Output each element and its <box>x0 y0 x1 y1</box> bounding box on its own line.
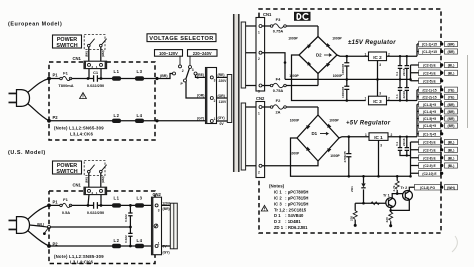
wire bottom rail European <box>49 120 157 122</box>
transformer primary winding (European) <box>227 75 231 123</box>
svg-text:(C1-6)+5: (C1-6)+5 <box>423 124 436 128</box>
regulator IC3 <box>365 92 391 105</box>
svg-text:L1: L1 <box>114 196 120 201</box>
svg-text:F1: F1 <box>63 70 68 75</box>
svg-text:L1: L1 <box>114 69 120 74</box>
svg-text:3: 3 <box>379 63 381 67</box>
svg-text:F1: F1 <box>63 197 68 202</box>
terminal row C2-3 E <box>419 62 458 68</box>
wire -15 output bus <box>387 90 442 101</box>
svg-text:IC 2: IC 2 <box>373 55 382 60</box>
terminal row C2-5 E <box>419 78 444 84</box>
svg-text:(C1-7)+5: (C1-7)+5 <box>423 132 436 136</box>
svg-text:(C2-3) E: (C2-3) E <box>423 64 436 68</box>
svg-text:2: 2 <box>182 69 184 73</box>
label 100-120V <box>155 50 183 57</box>
inductor L2 <box>112 119 121 123</box>
resistor 220 (emitter Tr1) <box>385 208 393 228</box>
svg-text:0.1: 0.1 <box>395 94 399 99</box>
svg-text:220: 220 <box>349 216 353 221</box>
inductor L3 (US) <box>135 203 144 207</box>
fuse F2 2A <box>262 98 318 115</box>
terminal row C1-1 +15 <box>419 41 458 47</box>
svg-text:(BR): (BR) <box>163 207 170 211</box>
connector CN1 (DC) <box>256 12 272 94</box>
regulator IC1 <box>365 133 393 148</box>
node P1 (US) <box>47 204 51 208</box>
capacitor 1000/35 (+rail) <box>341 55 349 80</box>
svg-text:(C2-10) E: (C2-10) E <box>422 172 437 176</box>
transformer primary winding (US) <box>170 203 177 249</box>
terminal row C2-8 E <box>419 155 458 161</box>
svg-text:(C1-8) PO: (C1-8) PO <box>420 186 435 190</box>
svg-text:(BL): (BL) <box>37 222 45 226</box>
svg-text:(BL): (BL) <box>448 141 455 145</box>
svg-text:(BL): (BL) <box>448 164 455 168</box>
svg-text:1000P: 1000P <box>290 119 300 123</box>
svg-text:2A: 2A <box>276 110 281 115</box>
svg-text:0.022/250: 0.022/250 <box>87 210 104 215</box>
node BR junction <box>155 77 158 80</box>
wire F3 to bridge <box>317 26 319 37</box>
node junction CN1 pin2 leg <box>87 77 90 80</box>
svg-text:P1: P1 <box>53 73 59 78</box>
svg-text:(BL): (BL) <box>448 64 455 68</box>
svg-text:(RE): (RE) <box>197 73 204 77</box>
svg-text:(BL): (BL) <box>448 71 455 75</box>
inductor L1 (US) <box>112 203 121 207</box>
svg-text:1000P: 1000P <box>330 154 340 158</box>
svg-text:Tr 1: Tr 1 <box>383 194 390 198</box>
switch S1 (European, dashed outline) <box>84 35 106 50</box>
svg-text:F4: F4 <box>276 77 281 82</box>
svg-text:(WH): (WH) <box>101 50 105 57</box>
wire bottom rail to xfmr pin1 <box>157 120 206 122</box>
svg-text:CN2: CN2 <box>256 96 265 101</box>
svg-text:1000P: 1000P <box>290 152 300 156</box>
capacitor 0.1 (IC2 out) <box>395 55 402 81</box>
node P2 <box>47 119 51 123</box>
svg-text:IC 3: IC 3 <box>373 99 382 104</box>
wire E (ground) line <box>285 78 411 80</box>
svg-text:(YE): (YE) <box>448 88 455 92</box>
svg-text:1: 1 <box>158 241 160 245</box>
svg-text:22/16: 22/16 <box>402 68 406 76</box>
wire E bus top group <box>411 65 442 81</box>
svg-text:3: 3 <box>379 92 381 96</box>
svg-text:Tr 2: Tr 2 <box>401 186 408 190</box>
svg-text:1000/35: 1000/35 <box>341 64 345 75</box>
svg-text:(BR): (BR) <box>448 103 455 107</box>
svg-text:2: 2 <box>258 57 260 61</box>
capacitor 4700/35 <box>343 135 351 177</box>
wire taps to primary winding <box>217 77 228 121</box>
DC section dashed enclosure <box>259 9 441 233</box>
wire D1 minus to ground rail <box>291 138 411 176</box>
node cap midpoint <box>129 226 132 229</box>
inductor L4 (US) <box>135 244 144 248</box>
svg-text:D 2 : 1D4B1: D 2 : 1D4B1 <box>274 219 301 224</box>
svg-text:(C1-4)+5: (C1-4)+5 <box>423 110 436 114</box>
capacitor 1000/35 (-rail) <box>341 78 349 102</box>
wire D2 plus to IC2 <box>337 55 369 56</box>
terminal row C1-8 PO <box>415 184 458 190</box>
node mid coil junction top <box>129 204 132 207</box>
wire +15 output bus <box>387 44 442 56</box>
capacitor 22/16 (IC1 out) <box>402 136 409 157</box>
node junction CN1 legs (US) <box>87 204 90 207</box>
inductor L3 <box>135 76 144 80</box>
scan artifact right edge <box>467 55 469 128</box>
capacitor 0.022/250 (US) <box>87 202 104 215</box>
warning triangle (notes) <box>261 205 267 211</box>
svg-text:(GY): (GY) <box>197 116 204 120</box>
wire selector P to xfmr pin2 <box>186 82 206 98</box>
svg-text:VOLTAGE SELECTOR: VOLTAGE SELECTOR <box>149 36 214 42</box>
svg-text:(C1-5)+5: (C1-5)+5 <box>423 117 436 121</box>
svg-text:1: 1 <box>365 52 367 56</box>
svg-text:CN1: CN1 <box>263 12 272 17</box>
resistor 220 (left) <box>349 203 357 227</box>
svg-text:(BR): (BR) <box>160 74 168 78</box>
svg-text:2: 2 <box>214 99 216 103</box>
svg-text:L3,L4:CK6: L3,L4:CK6 <box>70 259 93 264</box>
svg-text:D1: D1 <box>312 131 318 136</box>
bridge rectifier D1 <box>290 115 341 161</box>
svg-text:(BR): (BR) <box>448 43 455 47</box>
terminal row C2-10 E <box>419 171 444 177</box>
terminal row C1-4 +5 <box>419 109 458 115</box>
terminal row C2-2 -15 <box>419 94 458 100</box>
svg-text:CN2: CN2 <box>153 192 162 197</box>
svg-text:1000/35: 1000/35 <box>341 87 345 98</box>
wire BR to selector <box>157 74 173 79</box>
capacitor 0.1 (IC1 out) <box>395 136 411 156</box>
wire Tr2 collector to PO <box>409 187 441 191</box>
svg-text:IC 3 : μPC7915H: IC 3 : μPC7915H <box>274 201 308 206</box>
svg-text:4700/35: 4700/35 <box>343 151 347 162</box>
svg-text:(YE): (YE) <box>448 95 455 99</box>
svg-text:CN1: CN1 <box>73 56 82 61</box>
wire top rail European <box>49 78 157 80</box>
svg-text:(BL): (BL) <box>448 148 455 152</box>
voltage selector switch <box>173 56 199 86</box>
svg-text:(BK): (BK) <box>84 177 88 183</box>
svg-text:4.7k: 4.7k <box>392 185 396 191</box>
connector CN2 (US transformer) <box>152 192 162 255</box>
svg-text:220~240V: 220~240V <box>193 51 212 56</box>
terminal row C2-4 E <box>419 70 458 76</box>
wire D2 minus to IC3 <box>292 55 366 101</box>
connector CN1 (US AC) <box>73 182 107 195</box>
transistor Tr2 <box>401 186 413 200</box>
terminal row C1-2 +15 <box>419 49 458 55</box>
wire IC2 gnd <box>377 61 379 80</box>
svg-text:(European Model): (European Model) <box>8 22 62 28</box>
svg-text:0.1: 0.1 <box>395 141 399 146</box>
wire +5 output bus <box>388 104 442 136</box>
svg-text:(C1-1)+15: (C1-1)+15 <box>422 43 437 47</box>
svg-text:ZD 1 : RD6.2JB1: ZD 1 : RD6.2JB1 <box>274 225 308 230</box>
svg-text:D2: D2 <box>316 53 322 58</box>
svg-text:SWITCH: SWITCH <box>56 43 77 49</box>
wire switch to CN1 (US) <box>89 173 101 187</box>
svg-text:0.022: 0.022 <box>124 235 128 243</box>
svg-text:(C2-8) E: (C2-8) E <box>423 156 436 160</box>
connector transformer primary (European) <box>206 68 217 124</box>
label 220-240V <box>188 50 218 57</box>
svg-text:P1: P1 <box>53 199 59 204</box>
svg-text:F3: F3 <box>276 17 281 22</box>
svg-text:(C1-3)+5: (C1-3)+5 <box>423 103 436 107</box>
DC block label <box>294 12 311 21</box>
svg-text:IC 1: IC 1 <box>374 135 383 140</box>
capacitor 0.022 upper (US) <box>124 205 133 227</box>
terminal row C1-7 +5 <box>419 131 444 137</box>
svg-text:110V: 110V <box>219 100 227 104</box>
svg-text:Tr 1,2 : 2SC1815: Tr 1,2 : 2SC1815 <box>274 207 307 212</box>
svg-text:ZD1: ZD1 <box>350 186 354 192</box>
svg-text:0V: 0V <box>220 122 225 126</box>
svg-text:0.1: 0.1 <box>395 71 399 76</box>
svg-text:(C2-6) E: (C2-6) E <box>423 141 436 145</box>
node junction CN1 pin1 leg <box>100 77 103 80</box>
svg-text:+5V Regulator: +5V Regulator <box>346 121 391 127</box>
terminal row C2-6 E <box>419 139 458 145</box>
svg-text:(RE): (RE) <box>218 73 225 77</box>
European model dashed enclosure <box>49 62 155 140</box>
svg-text:L3,L4:CK6: L3,L4:CK6 <box>70 132 93 137</box>
fuse F4 0.75A <box>262 77 318 94</box>
svg-text:3: 3 <box>214 79 216 83</box>
capacitor 0.1 (IC3 out) <box>395 79 402 101</box>
svg-text:±15V Regulator: ±15V Regulator <box>348 40 396 46</box>
svg-text:F2: F2 <box>276 98 281 103</box>
terminal row C1-3 +5 <box>419 102 458 108</box>
fuse F3 0.75A <box>262 17 318 34</box>
node P2 (US) <box>47 244 51 248</box>
svg-text:(BR): (BR) <box>448 50 455 54</box>
svg-text:3: 3 <box>158 208 160 212</box>
svg-text:L3: L3 <box>137 196 143 201</box>
svg-text:D 1 : S4VB40: D 1 : S4VB40 <box>274 213 304 218</box>
AC plug (U.S.) <box>9 205 50 246</box>
svg-text:(U.S. Model): (U.S. Model) <box>8 150 46 156</box>
transformer secondary winding 15V <box>241 22 245 88</box>
svg-text:1: 1 <box>214 117 216 121</box>
svg-text:P2: P2 <box>53 115 59 120</box>
connector CN1 (European AC) <box>73 56 107 69</box>
svg-text:(BR): (BR) <box>448 117 455 121</box>
wire F4 to bridge <box>317 74 319 86</box>
svg-text:3: 3 <box>258 90 260 94</box>
regulator IC2 <box>365 52 391 67</box>
svg-text:(BR): (BR) <box>448 110 455 114</box>
svg-text:0.022/250: 0.022/250 <box>87 83 104 88</box>
notes block <box>269 184 308 230</box>
svg-text:(C2-2)-15: (C2-2)-15 <box>422 95 436 99</box>
svg-text:22/16: 22/16 <box>402 138 406 146</box>
wire base line Tr1 <box>355 202 386 204</box>
svg-text:1000P: 1000P <box>332 37 342 41</box>
wire CN2 to winding (US) <box>162 205 171 246</box>
svg-text:1: 1 <box>365 97 367 101</box>
capacitor 22/16 (IC2 out) <box>402 55 409 79</box>
svg-text:0.022: 0.022 <box>124 214 128 222</box>
AC plug (European) <box>9 79 50 121</box>
svg-text:C1: C1 <box>93 70 99 75</box>
terminal row C1-6 +5 <box>419 123 458 129</box>
svg-text:CN1: CN1 <box>73 182 82 187</box>
svg-text:(BL): (BL) <box>448 156 455 160</box>
U.S. model dashed enclosure <box>49 191 155 264</box>
svg-text:(Note) L1,L2:SN65-309: (Note) L1,L2:SN65-309 <box>54 126 104 131</box>
svg-text:(C2-7) E: (C2-7) E <box>423 148 436 152</box>
node mid coil junction bottom <box>129 245 132 248</box>
wire Tr2 emitter <box>391 200 410 211</box>
wire secondary taps <box>246 26 256 166</box>
svg-text:220: 220 <box>385 217 389 222</box>
POWER SWITCH label box (European) <box>53 35 82 49</box>
terminal row C1-5 +5 <box>419 116 458 122</box>
transistor Tr1 <box>383 194 396 208</box>
wire top rail US <box>49 204 152 206</box>
svg-text:SWITCH: SWITCH <box>56 169 77 175</box>
switch S1 (US, dashed outline) <box>84 161 106 176</box>
svg-text:(C2-5) E: (C2-5) E <box>423 79 436 83</box>
transformer secondary winding 5V <box>241 103 245 170</box>
wire center tap to E line <box>262 53 285 80</box>
svg-text:(BR): (BR) <box>448 124 455 128</box>
POWER SWITCH label box (US) <box>53 161 82 175</box>
wire IC1 gnd <box>378 140 380 176</box>
svg-text:(C2-1)-15: (C2-1)-15 <box>422 88 436 92</box>
svg-text:220V: 220V <box>219 79 228 83</box>
svg-text:1000P: 1000P <box>329 119 339 123</box>
svg-text:(BK): (BK) <box>84 51 88 57</box>
capacitor 0.022 lower (US) <box>124 227 133 246</box>
svg-text:3: 3 <box>192 68 194 72</box>
fuse F1 (US) 0.5A <box>60 197 72 215</box>
svg-text:0.75A: 0.75A <box>273 29 284 34</box>
svg-text:0.5A: 0.5A <box>62 210 70 215</box>
wire CN1 to rail (US) <box>88 195 101 206</box>
svg-text:(C1-2)+15: (C1-2)+15 <box>422 50 437 54</box>
wire IC3 gnd <box>377 79 379 96</box>
svg-text:(WH): (WH) <box>101 176 105 183</box>
svg-text:(Note) L1,L2:SN85-309: (Note) L1,L2:SN85-309 <box>54 254 104 259</box>
zener ZD1 <box>350 175 366 203</box>
terminal row C2-7 E <box>419 147 458 153</box>
svg-text:(GY): (GY) <box>218 116 225 120</box>
wire bottom rail US <box>49 245 152 247</box>
terminal row C2-1 -15 <box>419 87 458 93</box>
svg-text:L4: L4 <box>137 113 143 118</box>
inductor L2 (US) <box>112 244 121 248</box>
terminal row C2-9 E <box>419 163 458 169</box>
bridge rectifier D2 <box>288 37 343 78</box>
fuse F1 (T800mA) <box>58 70 73 88</box>
svg-text:2: 2 <box>258 170 260 174</box>
transformer core <box>233 14 239 172</box>
wire D1 plus to IC1 <box>339 137 369 138</box>
resistor base (small) <box>371 202 379 205</box>
svg-text:1000P: 1000P <box>288 37 298 41</box>
svg-text:L3: L3 <box>137 69 143 74</box>
svg-text:T800mA: T800mA <box>58 83 73 88</box>
svg-text:1000P: 1000P <box>289 74 299 78</box>
node P1 <box>47 77 51 81</box>
svg-text:L2: L2 <box>114 238 120 243</box>
svg-text:(OR): (OR) <box>197 94 204 98</box>
svg-text:(WH): (WH) <box>447 186 455 190</box>
svg-text:IC 2 : μPC7815H: IC 2 : μPC7815H <box>274 196 308 201</box>
svg-text:1: 1 <box>365 133 367 137</box>
warning triangle <box>80 93 87 99</box>
inductor L1 <box>112 76 121 80</box>
connector CN2 (DC) <box>256 96 265 177</box>
wire CN1 to rail <box>89 69 101 79</box>
resistor 4.7k <box>392 175 399 194</box>
capacitor C1 0.022/250 <box>87 70 104 88</box>
wire middle rail US <box>51 226 131 228</box>
svg-text:(C2-9) E: (C2-9) E <box>423 164 436 168</box>
svg-text:0.75A: 0.75A <box>273 88 284 93</box>
wire CN2 pin2 to bridge D1 <box>262 161 318 166</box>
svg-text:IC 1 : μPC7805H: IC 1 : μPC7805H <box>274 190 308 195</box>
svg-text:(GY): (GY) <box>163 250 170 254</box>
VOLTAGE SELECTOR header <box>147 34 216 42</box>
wire E bus bottom group <box>411 142 442 176</box>
svg-text:(C2-4) E: (C2-4) E <box>423 71 436 75</box>
wire Tr1 collector to Tr2 base <box>392 194 402 199</box>
svg-text:100~120V: 100~120V <box>159 51 178 56</box>
node bottom rail to xfmr <box>155 119 158 122</box>
svg-text:1: 1 <box>258 112 260 116</box>
wire F2 to bridge D1 <box>317 107 319 115</box>
svg-text:(Notes): (Notes) <box>269 184 285 189</box>
svg-text:L4: L4 <box>137 238 143 243</box>
svg-text:22/16: 22/16 <box>402 91 406 99</box>
inductor L4 <box>135 119 144 123</box>
svg-text:1: 1 <box>258 31 260 35</box>
capacitor 22/16 (IC3 out) <box>402 79 409 101</box>
svg-text:3: 3 <box>380 144 382 148</box>
svg-text:L2: L2 <box>114 113 120 118</box>
wire switch to CN1 (European) <box>89 47 101 61</box>
wire selector 4 to xfmr pin3 <box>196 75 206 77</box>
